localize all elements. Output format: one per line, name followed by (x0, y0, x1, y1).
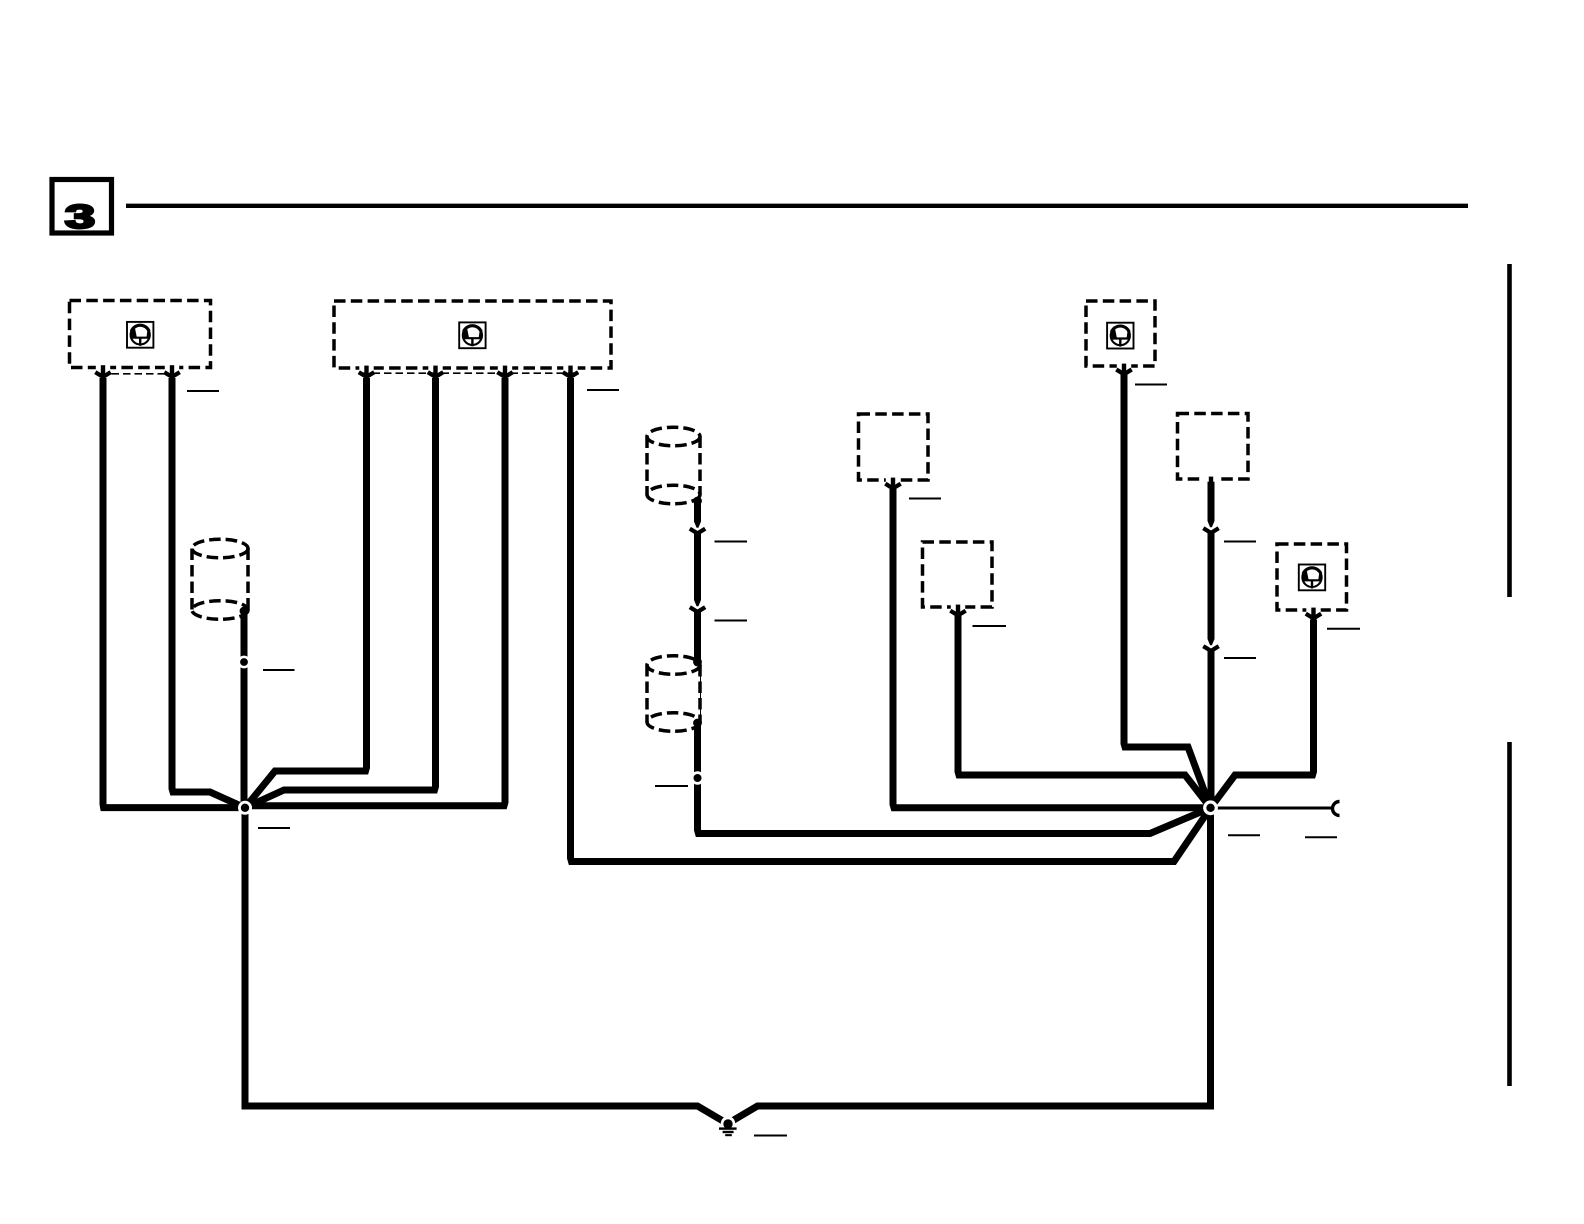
wire label line at E3 branch upper arrow (1224, 541, 1256, 543)
wire label line at middle branch upper arrow (715, 541, 748, 543)
label line at ground (754, 1135, 787, 1137)
connector box B (dashed) (334, 301, 611, 368)
wire from connector box B pin 4 to right junction (571, 378, 1211, 862)
steering wheel icon in box D (1299, 565, 1325, 591)
inline connector arrow on middle branch (lower) (690, 600, 705, 612)
pin gap and stub box A pin 1 (96, 365, 110, 376)
splice dot at S3 outlet (693, 719, 702, 728)
empty box E1 (dashed) (859, 414, 929, 480)
wire from connector box A pin 2 to left junction (172, 378, 245, 808)
pin arrow at box E2 (950, 611, 965, 616)
splice dot on S1 outlet (240, 607, 249, 616)
wire from empty box E1 to right junction (893, 489, 1211, 808)
wire label line at E3 branch lower arrow (1224, 657, 1256, 659)
wire label line at box B (587, 389, 619, 391)
pin gap and stub box A pin 2 (165, 365, 179, 376)
steering wheel icon in box A (127, 322, 153, 348)
right margin bar upper (1507, 264, 1512, 597)
empty box E3 (dashed, middle right) (1178, 414, 1249, 480)
left junction node (238, 801, 252, 815)
wire label line at left branch splice dot (263, 669, 295, 671)
wire label line at box C (1135, 384, 1167, 386)
label line at right junction (left) (1228, 834, 1260, 836)
splice cylinder S2 (top of middle branch) (647, 427, 700, 504)
wire from empty box E2 to right junction (958, 616, 1211, 808)
wire from steering box D to right junction (1211, 620, 1314, 808)
splice bead on left branch wire (238, 656, 251, 669)
right junction node (1203, 800, 1218, 815)
thin lead from right junction to connector stub (1211, 807, 1333, 810)
pin arrow at box B pin 2 (428, 372, 443, 377)
pin arrow at box D (1306, 614, 1321, 619)
pin arrow at box B pin 3 (497, 372, 512, 377)
splice dot on S2 outlet (693, 497, 702, 506)
wire from connector box B pin 2 to left junction (245, 378, 436, 808)
right margin bar lower (1507, 742, 1512, 1086)
pin arrow at box A pin 2 (164, 372, 179, 377)
pin gap and stub box E2 pin (951, 604, 965, 613)
steering box C (dashed, top right) (1086, 301, 1155, 366)
connector stub half-shell (1333, 802, 1340, 816)
wire from connector box B pin 1 to left junction (245, 378, 367, 808)
splice dot at S3 inlet (693, 658, 702, 667)
steering box D (dashed, right) (1277, 544, 1347, 610)
wire from steering box C to right junction (1124, 374, 1211, 808)
pin arrow at box C (1116, 370, 1131, 375)
pin gap and stub box B pin 4 (563, 365, 577, 375)
wire from splice cylinder S1 to left junction (241, 611, 248, 808)
header rule line (126, 204, 1468, 208)
pin arrow at box E1 (885, 484, 900, 489)
label line at right junction (right) (1305, 836, 1337, 838)
wire label line at box D (1327, 628, 1360, 630)
inline connector arrow on middle branch (upper) (690, 522, 705, 534)
pin gap and stub box B pin 2 (428, 365, 442, 375)
inline connector arrow on E3 branch (lower) (1203, 639, 1218, 651)
pin arrow at box A pin 1 (95, 372, 110, 377)
splice bead on middle branch wire (691, 771, 705, 785)
inline connector arrow on E3 branch (upper) (1203, 521, 1218, 533)
page number box 3 (52, 180, 112, 236)
steering wheel icon in box C (1107, 323, 1133, 349)
splice cylinder S3 (middle branch lower) (647, 656, 700, 732)
wire from connector box B pin 3 to left junction (245, 378, 505, 806)
splice cylinder S1 (left branch) (192, 539, 248, 619)
wire label line at middle branch lower arrow (715, 620, 748, 622)
steering wheel icon in box B (459, 322, 485, 348)
thin dashed connector face line under box B (361, 372, 577, 374)
pin gap and stub box E3 pin (1204, 476, 1218, 482)
pin gap and stub box B pin 1 (359, 365, 373, 375)
svg-text:3: 3 (65, 198, 95, 235)
thin dashed connector face line under box A (100, 373, 174, 375)
label line at left junction (258, 827, 290, 829)
wire label line at box A (187, 390, 219, 392)
ground symbol (719, 1116, 737, 1136)
ground wire from left junction (245, 808, 728, 1124)
pin arrow at box B pin 1 (359, 372, 374, 377)
empty box E2 (dashed) (923, 542, 993, 607)
pin gap and stub box D pin (1306, 607, 1320, 616)
pin gap and stub box C pin (1117, 363, 1131, 372)
wire label line at box E2 (973, 625, 1007, 627)
wire from splice cylinder S2 through S3 to right junction (698, 500, 1211, 834)
wire label line at middle branch splice dot (655, 785, 688, 787)
pin arrow at box B pin 4 (563, 372, 578, 377)
pin gap and stub box E1 pin (886, 477, 900, 486)
wire from empty box E3 straight down to right junction (1208, 480, 1215, 808)
wire from connector box A pin 1 to left junction (103, 378, 245, 808)
connector box A (dashed) (70, 301, 211, 368)
pin gap and stub box B pin 3 (498, 365, 512, 375)
wire label line at box E1 (909, 498, 941, 500)
ground wire from right junction (727, 808, 1211, 1124)
